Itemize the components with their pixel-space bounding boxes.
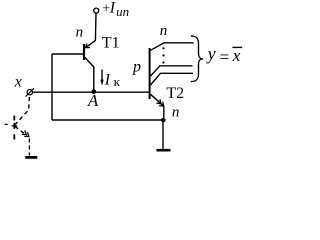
- phantom emitter: [15, 126, 27, 135]
- left branch: T1 base to bottom rail: [51, 54, 53, 120]
- svg-text:p: p: [132, 58, 141, 75]
- svg-text:I: I: [109, 0, 116, 16]
- phantom base lead: [5, 124, 17, 126]
- phantom transistor (dashed, previous stage): [5, 96, 38, 158]
- T2 collector 1: [150, 43, 194, 51]
- wire supply to T1 emitter: [86, 13, 96, 47]
- current arrow Ik: [100, 70, 120, 90]
- T1 collector: [85, 58, 94, 92]
- ellipsis dots: [162, 47, 164, 63]
- supply terminal circle: [94, 8, 99, 13]
- ground (left): [25, 156, 37, 159]
- T2 collector 2: [151, 66, 193, 76]
- svg-text:к: к: [114, 74, 121, 89]
- svg-text:=: =: [220, 48, 230, 67]
- wire T2 emitter to ground: [162, 120, 164, 149]
- label y = x-bar: [206, 43, 242, 66]
- svg-text:n: n: [172, 105, 180, 121]
- T1 base bar: [83, 44, 85, 60]
- phantom emitter arrowheads: [24, 132, 29, 136]
- wire x to T2 base: [33, 91, 149, 93]
- svg-text:T1: T1: [102, 35, 120, 52]
- svg-text:n: n: [160, 23, 168, 39]
- svg-text:I: I: [104, 72, 111, 89]
- bottom rail: [52, 119, 163, 121]
- input terminal x: [26, 88, 34, 96]
- junction dot (emitter / rail): [161, 118, 166, 123]
- svg-text:ип: ип: [116, 4, 129, 19]
- node A: [92, 89, 97, 94]
- transistor T1: [52, 44, 94, 92]
- phantom base bar: [13, 116, 15, 140]
- phantom collector (to x terminal): [15, 96, 30, 125]
- label +Iip (supply current): [102, 0, 129, 19]
- phantom emitter to ground: [28, 139, 30, 156]
- output brace: [191, 36, 203, 82]
- ground (right): [157, 149, 171, 152]
- svg-text:A: A: [87, 91, 99, 110]
- T2 base bar: [149, 48, 151, 99]
- T1 base lead: [52, 53, 83, 55]
- svg-text:x: x: [232, 46, 241, 65]
- svg-text:T2: T2: [166, 85, 184, 102]
- svg-text:n: n: [76, 25, 84, 41]
- T2 collector 3: [151, 73, 194, 85]
- svg-text:x: x: [14, 74, 22, 91]
- svg-text:y: y: [206, 43, 216, 63]
- T2 emitter arrowheads: [159, 102, 164, 107]
- transistor T2 (multi-collector): [150, 43, 194, 120]
- T2 emitter: [151, 94, 164, 120]
- T1 emitter arrowhead: [85, 44, 90, 48]
